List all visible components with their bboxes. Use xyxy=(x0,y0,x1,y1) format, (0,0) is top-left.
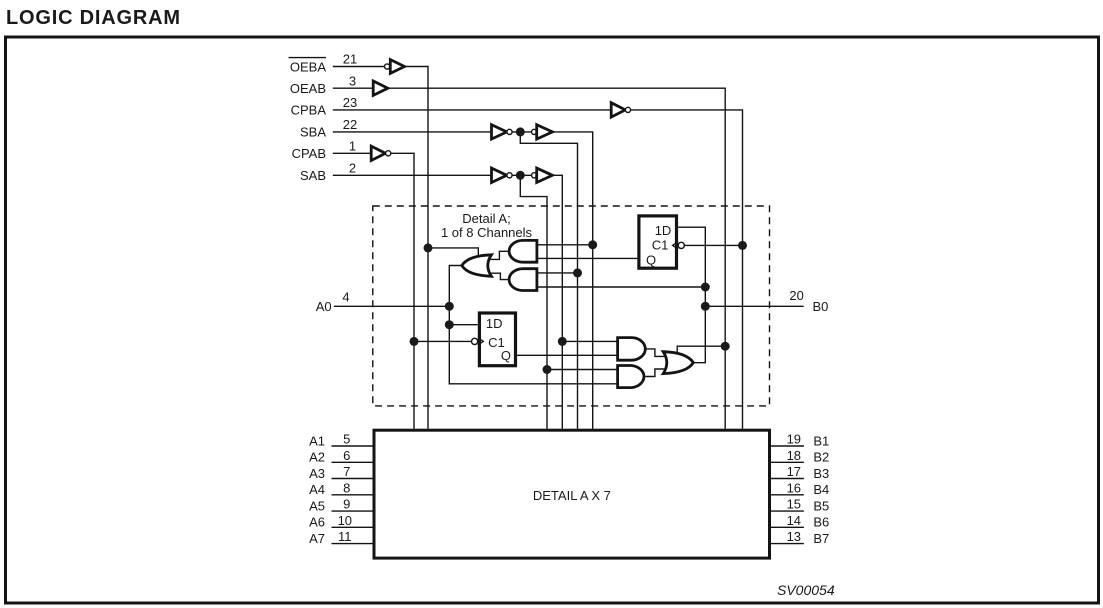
wire A3 xyxy=(332,478,373,480)
wire B6 xyxy=(771,526,804,528)
inverter SBA first triangle xyxy=(492,125,507,139)
inverter SAB second triangle xyxy=(537,168,553,182)
inverter SAB second input bubble xyxy=(532,173,537,178)
wire CPAB lead xyxy=(333,152,371,154)
wire A0 input xyxy=(334,305,450,307)
svg-text:SAB: SAB xyxy=(300,168,326,183)
junction A0 node xyxy=(445,302,454,311)
svg-text:23: 23 xyxy=(343,95,357,110)
inverter CPAB output bubble xyxy=(386,151,391,156)
wire B2 xyxy=(771,461,804,463)
svg-text:A4: A4 xyxy=(309,482,325,497)
junction SBA tap xyxy=(516,127,525,136)
inverter CPBA output bubble xyxy=(625,107,630,112)
clock bubble FF1 xyxy=(678,242,684,248)
svg-text:Q: Q xyxy=(646,252,656,267)
svg-text:8: 8 xyxy=(343,480,350,495)
svg-text:SV00054: SV00054 xyxy=(777,582,835,598)
svg-text:B3: B3 xyxy=(813,466,829,481)
inverter SAB first output bubble xyxy=(507,173,512,178)
inverter SAB first triangle xyxy=(492,168,507,182)
wire AND U5 top input from SAB buffered xyxy=(562,340,617,342)
svg-text:9: 9 xyxy=(343,497,350,512)
wire A2 xyxy=(332,461,373,463)
wire SAB between inverters xyxy=(512,174,531,176)
svg-text:B6: B6 xyxy=(813,515,829,530)
wire OR U7 output up to B0 net and FF1 1D xyxy=(678,227,705,363)
inverter CPAB triangle xyxy=(371,146,385,160)
wire B1 xyxy=(771,445,804,447)
wire A1 xyxy=(332,445,373,447)
and-gate U5 right-pointing xyxy=(618,338,646,361)
wire A4 xyxy=(332,494,373,496)
or-gate U2 left-pointing xyxy=(462,255,492,276)
wire B3 xyxy=(771,478,804,480)
wire SAB lead xyxy=(333,174,492,176)
svg-text:3: 3 xyxy=(349,73,356,88)
svg-text:14: 14 xyxy=(787,513,801,528)
svg-text:CPBA: CPBA xyxy=(291,103,327,118)
svg-text:17: 17 xyxy=(787,464,801,479)
buffer OEBA triangle xyxy=(390,60,404,74)
wire SBA inverted tap down xyxy=(520,132,577,429)
inverter OEBA input bubble xyxy=(385,64,390,69)
detail A dashed box xyxy=(373,206,770,406)
wire CPAB output down xyxy=(391,153,414,428)
overline OEBA xyxy=(289,57,327,59)
clock wedge FF1 xyxy=(673,242,679,249)
wire FF2 C1 clock from CPAB xyxy=(414,340,472,342)
svg-text:B2: B2 xyxy=(813,450,829,465)
inverter CPBA triangle xyxy=(611,103,625,117)
inverter SBA second triangle xyxy=(537,125,553,139)
svg-text:A0: A0 xyxy=(316,299,332,314)
wire AND U6 output to OR U7 xyxy=(645,369,664,377)
inverter SBA second input bubble xyxy=(532,129,537,134)
svg-text:B7: B7 xyxy=(813,531,829,546)
wire B0 output xyxy=(705,305,803,307)
junction SAB buffered to U5 xyxy=(558,337,567,346)
clock wedge FF2 xyxy=(478,338,484,345)
wire OEAB output down xyxy=(388,88,725,429)
svg-text:13: 13 xyxy=(787,529,801,544)
wire B4 xyxy=(771,494,804,496)
svg-text:1D: 1D xyxy=(486,316,503,331)
svg-text:LOGIC DIAGRAM: LOGIC DIAGRAM xyxy=(6,7,181,29)
junction OEBA enable xyxy=(424,243,433,252)
svg-text:C1: C1 xyxy=(652,238,669,253)
svg-text:20: 20 xyxy=(789,288,803,303)
svg-text:DETAIL A X 7: DETAIL A X 7 xyxy=(533,488,611,503)
junction FF2 1D xyxy=(445,320,454,329)
or-gate U7 right-pointing xyxy=(663,352,693,374)
wire OEAB enable into OR U7 xyxy=(677,346,725,353)
wire OR U2 output to A side net xyxy=(449,266,617,384)
inverter SBA first output bubble xyxy=(507,129,512,134)
svg-text:A3: A3 xyxy=(309,466,325,481)
wire SAB buffered down xyxy=(552,175,562,428)
svg-text:10: 10 xyxy=(338,513,352,528)
svg-text:1D: 1D xyxy=(655,223,672,238)
wire AND U4 bottom input from B0 net xyxy=(537,286,705,288)
svg-text:19: 19 xyxy=(787,432,801,447)
wire FF1 C1 clock from CPBA xyxy=(684,244,743,246)
wire CPBA lead xyxy=(333,109,611,111)
svg-text:21: 21 xyxy=(343,52,357,67)
wire AND U4 top input from SBA inverted xyxy=(537,272,578,274)
svg-text:A2: A2 xyxy=(309,450,325,465)
buffer OEAB triangle xyxy=(373,81,388,95)
junction CPAB clock xyxy=(410,337,419,346)
svg-text:7: 7 xyxy=(343,464,350,479)
svg-text:Detail A;: Detail A; xyxy=(462,211,510,226)
flip-flop FF1 box xyxy=(639,216,677,268)
wire A7 xyxy=(332,543,373,545)
svg-text:B0: B0 xyxy=(813,299,829,314)
wire AND U4 output to OR U2 xyxy=(491,273,510,279)
junction OEAB enable xyxy=(721,342,730,351)
and-gate U4 left-pointing xyxy=(509,269,537,291)
and-gate U6 right-pointing xyxy=(618,366,644,388)
svg-text:B4: B4 xyxy=(813,482,829,497)
svg-text:OEBA: OEBA xyxy=(290,59,326,74)
svg-text:OEAB: OEAB xyxy=(290,81,326,96)
wire A5 xyxy=(332,510,373,512)
and-gate U3 left-pointing xyxy=(509,240,537,262)
svg-text:A5: A5 xyxy=(309,499,325,514)
wire A6 xyxy=(332,526,373,528)
svg-text:A7: A7 xyxy=(309,531,325,546)
wire B5 xyxy=(771,510,804,512)
svg-text:11: 11 xyxy=(338,529,352,544)
wire SAB inverted tap down xyxy=(520,175,547,428)
svg-text:5: 5 xyxy=(343,432,350,447)
svg-text:2: 2 xyxy=(349,161,356,176)
junction B0 node xyxy=(701,302,710,311)
svg-text:18: 18 xyxy=(787,448,801,463)
svg-text:B1: B1 xyxy=(813,433,829,448)
wire OEBA output down xyxy=(405,67,429,429)
wire B7 xyxy=(771,543,804,545)
wire OEAB lead xyxy=(333,87,373,89)
wire OEBA enable into OR U2 xyxy=(428,248,478,259)
wire AND U3 output to OR U2 xyxy=(491,251,510,259)
wire SBA lead xyxy=(333,131,492,133)
wire SBA between inverters xyxy=(512,131,531,133)
svg-text:4: 4 xyxy=(342,290,349,305)
wire OEBA lead xyxy=(333,66,385,68)
junction SAB tap xyxy=(516,171,525,180)
clock bubble FF2 xyxy=(472,338,478,344)
junction B net to U4 input xyxy=(701,283,710,292)
svg-text:B5: B5 xyxy=(813,499,829,514)
junction SBA buffered to U3 xyxy=(588,240,597,249)
wire AND U3 top input from SBA buffered xyxy=(537,244,593,246)
wire SBA buffered down xyxy=(552,132,592,429)
svg-text:1: 1 xyxy=(349,139,356,154)
junction SBA inverted to U4 xyxy=(573,268,582,277)
wire AND U3 bottom input from FF1 Q xyxy=(537,257,637,259)
svg-text:SBA: SBA xyxy=(300,125,326,140)
wire FF2 1D input xyxy=(449,324,478,326)
svg-text:CPAB: CPAB xyxy=(292,146,326,161)
wire FF2 Q output xyxy=(517,354,618,356)
wire AND U5 output to OR U7 xyxy=(645,349,664,357)
svg-text:A6: A6 xyxy=(309,515,325,530)
svg-text:16: 16 xyxy=(787,480,801,495)
flip-flop FF2 box xyxy=(479,313,515,366)
svg-text:15: 15 xyxy=(787,497,801,512)
svg-text:22: 22 xyxy=(343,117,357,132)
wire AND U6 top input from SAB inverted xyxy=(547,369,618,371)
wire CPBA output down xyxy=(631,110,743,429)
block DETAIL A X 7 xyxy=(374,430,770,558)
svg-text:Q: Q xyxy=(501,348,511,363)
svg-text:6: 6 xyxy=(343,448,350,463)
junction CPBA clock xyxy=(738,241,747,250)
svg-text:1 of 8 Channels: 1 of 8 Channels xyxy=(441,225,533,240)
junction SAB inverted to U6 xyxy=(543,365,552,374)
svg-text:A1: A1 xyxy=(309,433,325,448)
